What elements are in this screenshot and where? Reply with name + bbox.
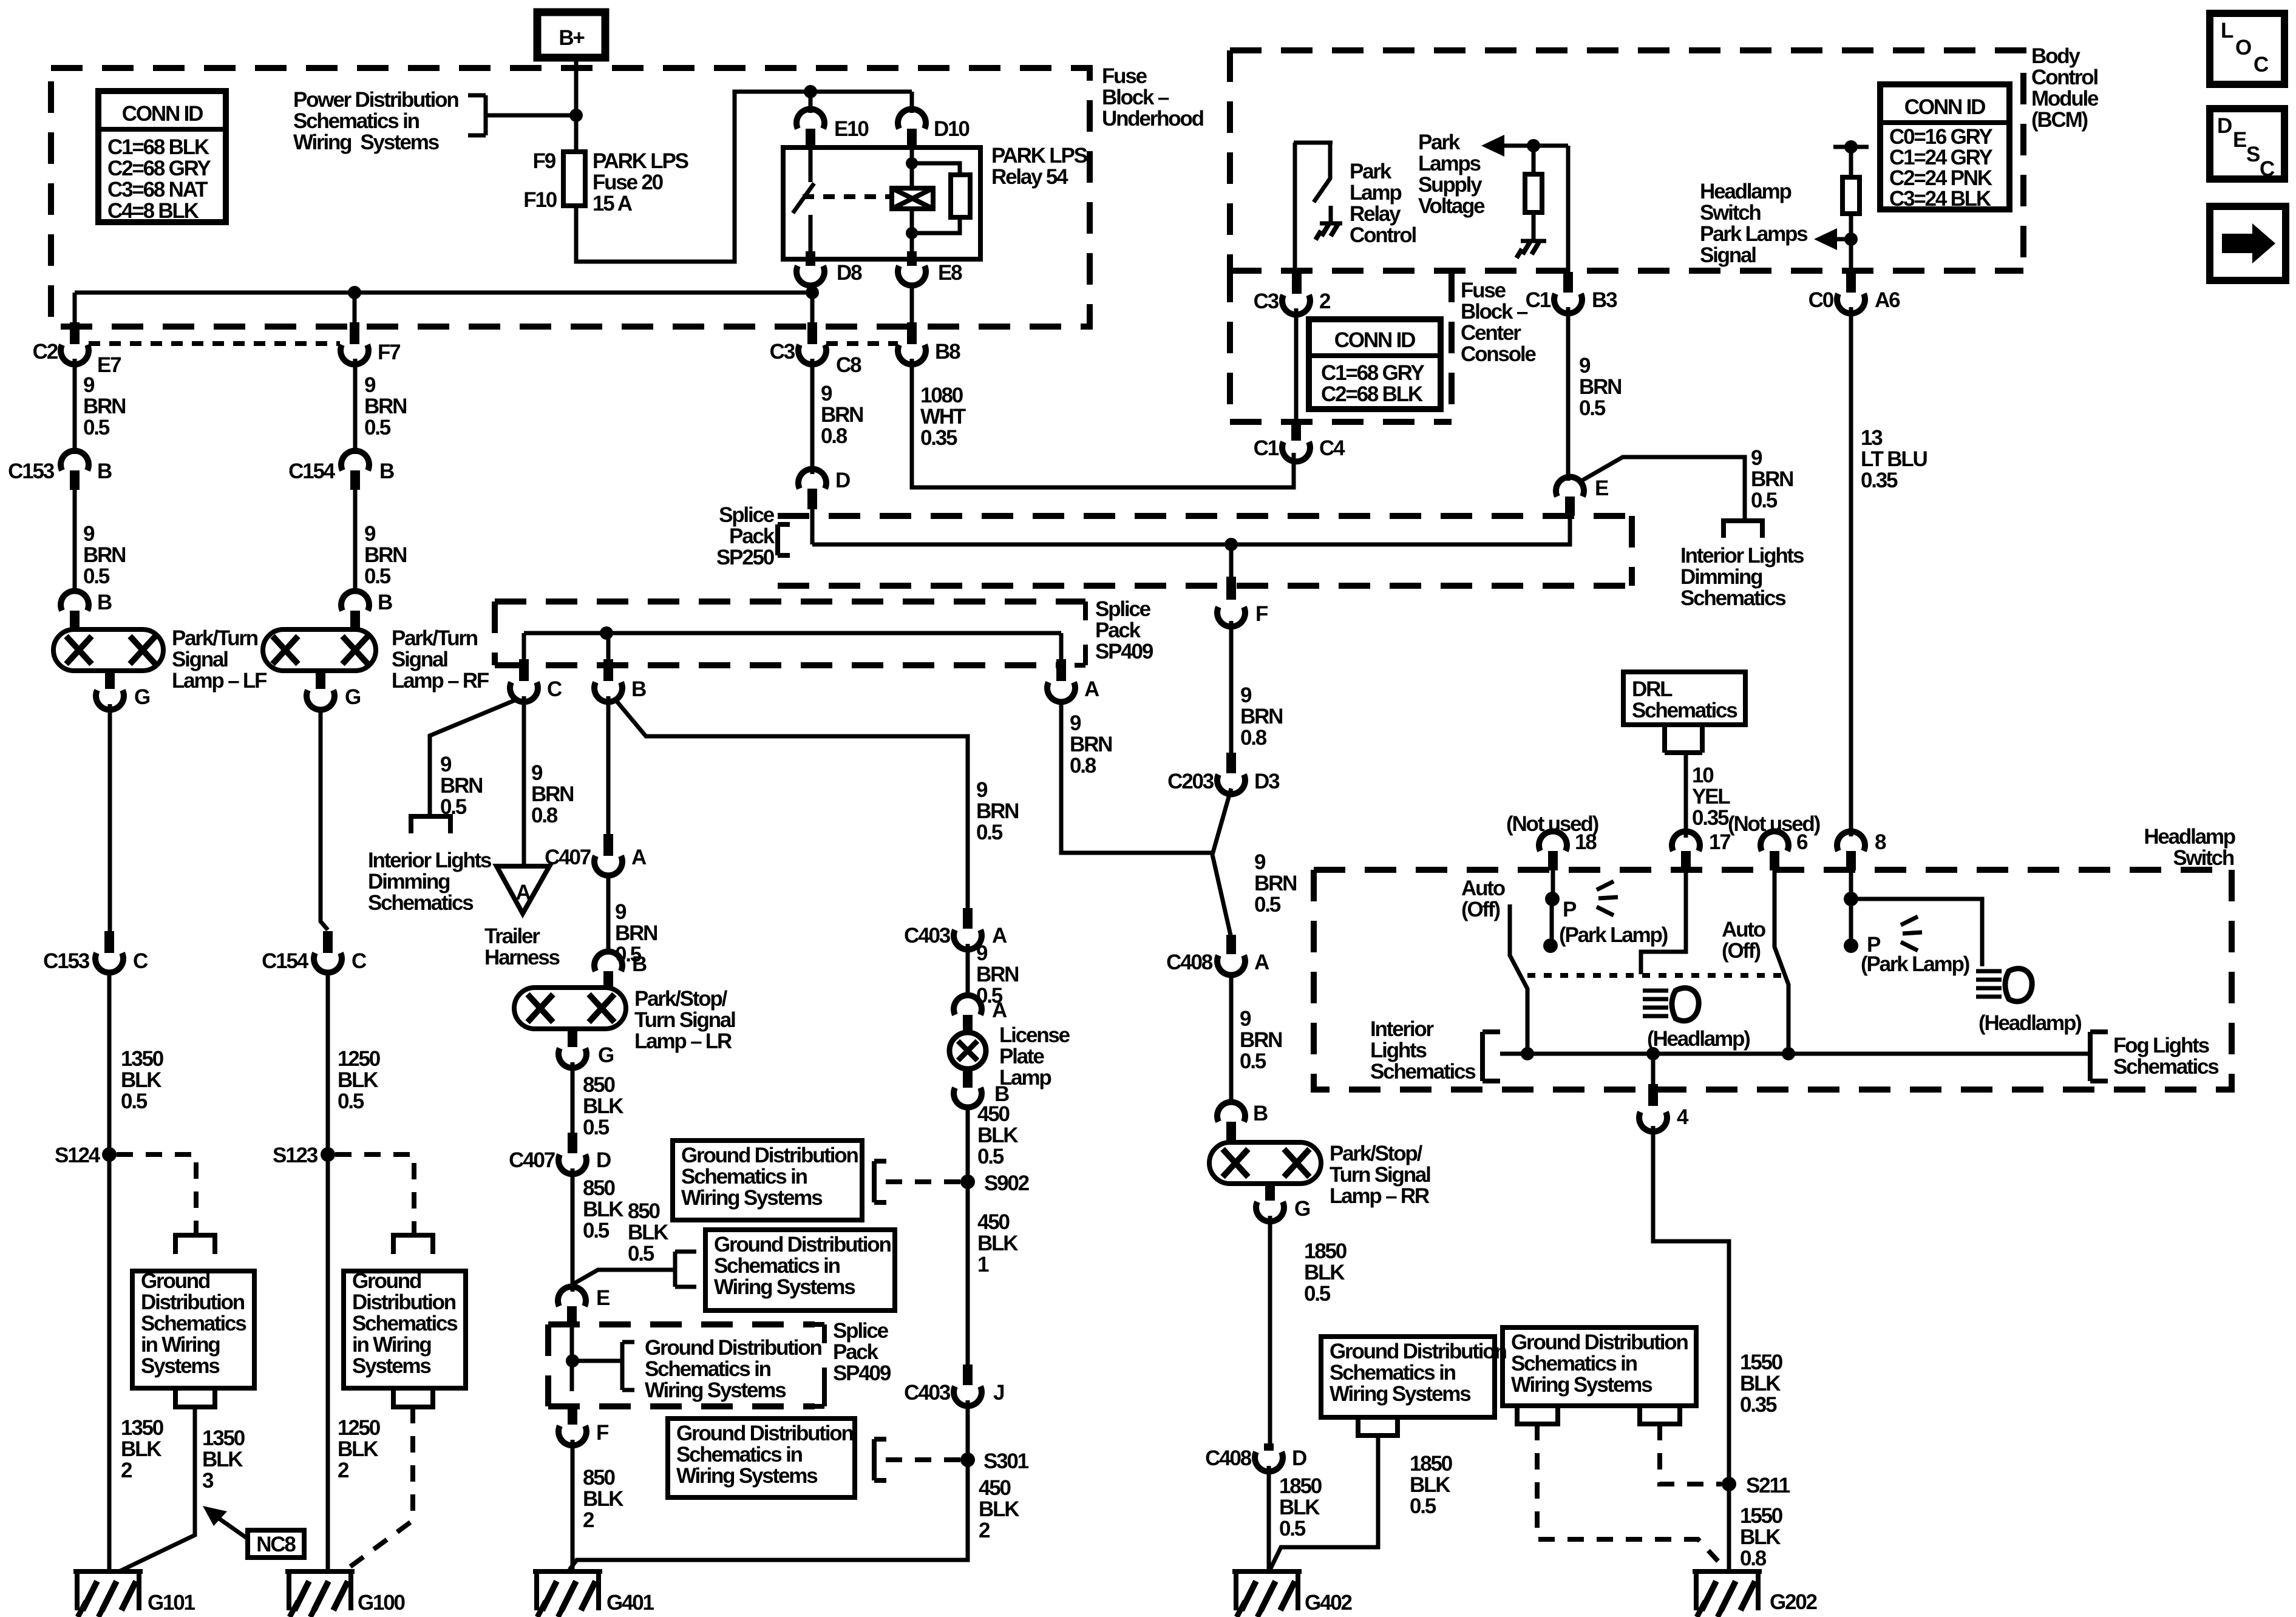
svg-text:Switch: Switch: [1700, 201, 1761, 225]
svg-text:BLK: BLK: [338, 1437, 378, 1461]
svg-text:0.5: 0.5: [1410, 1494, 1436, 1518]
svg-text:E7: E7: [97, 353, 121, 377]
svg-text:CONN ID: CONN ID: [1904, 95, 1985, 119]
svg-text:(Off): (Off): [1722, 939, 1760, 963]
svg-text:C2=68 BLK: C2=68 BLK: [1321, 382, 1423, 406]
svg-text:18: 18: [1575, 830, 1597, 854]
svg-text:1250: 1250: [338, 1416, 381, 1440]
svg-text:D: D: [2217, 114, 2232, 138]
svg-text:C407: C407: [545, 846, 591, 869]
svg-text:(Park Lamp): (Park Lamp): [1559, 923, 1668, 947]
svg-text:17: 17: [1709, 830, 1730, 854]
svg-text:BRN: BRN: [1240, 705, 1282, 728]
svg-text:9: 9: [440, 753, 452, 776]
svg-text:1: 1: [977, 1253, 989, 1276]
svg-text:9: 9: [976, 941, 988, 965]
svg-text:Ground Distribution: Ground Distribution: [681, 1144, 858, 1167]
svg-text:9: 9: [531, 761, 543, 785]
svg-text:9: 9: [364, 522, 376, 546]
svg-text:A: A: [631, 846, 647, 869]
svg-text:C1: C1: [1526, 288, 1551, 312]
svg-text:9: 9: [83, 522, 95, 546]
svg-text:PARK LPS: PARK LPS: [991, 144, 1087, 168]
svg-text:0.5: 0.5: [1751, 489, 1778, 512]
svg-text:BLK: BLK: [202, 1448, 243, 1471]
svg-text:(Headlamp): (Headlamp): [1978, 1011, 2081, 1035]
svg-text:B: B: [632, 952, 647, 976]
svg-text:B: B: [1253, 1102, 1268, 1125]
svg-text:C403: C403: [904, 924, 951, 947]
svg-text:E: E: [1595, 476, 1608, 500]
svg-text:1080: 1080: [920, 384, 963, 407]
svg-text:C1: C1: [1254, 436, 1279, 460]
svg-text:Auto: Auto: [1722, 918, 1766, 941]
svg-text:BLK: BLK: [977, 1124, 1018, 1147]
svg-text:Schematics in: Schematics in: [645, 1357, 771, 1381]
svg-text:2: 2: [338, 1459, 349, 1482]
svg-text:C3: C3: [770, 340, 795, 364]
svg-text:450: 450: [979, 1476, 1011, 1500]
svg-text:Splice: Splice: [833, 1319, 889, 1343]
svg-text:S124: S124: [55, 1144, 101, 1167]
svg-text:G202: G202: [1770, 1590, 1818, 1614]
svg-text:Splice: Splice: [1095, 597, 1151, 621]
svg-text:Schematics: Schematics: [141, 1312, 246, 1335]
svg-text:SP409: SP409: [833, 1361, 891, 1385]
svg-text:Signal: Signal: [172, 648, 228, 671]
svg-text:BRN: BRN: [531, 782, 573, 806]
svg-text:Supply: Supply: [1418, 173, 1483, 197]
svg-text:Body: Body: [2031, 44, 2080, 68]
svg-text:450: 450: [977, 1210, 1010, 1234]
svg-text:DRL: DRL: [1632, 677, 1673, 701]
svg-text:Schematics: Schematics: [352, 1312, 458, 1335]
svg-text:C203: C203: [1167, 770, 1214, 793]
svg-text:BLK: BLK: [977, 1232, 1018, 1255]
svg-text:C: C: [547, 677, 562, 701]
svg-text:A: A: [515, 881, 531, 904]
svg-text:Wiring Systems: Wiring Systems: [1511, 1373, 1652, 1397]
svg-text:Lamp – RF: Lamp – RF: [392, 669, 489, 693]
svg-text:Ground Distribution: Ground Distribution: [714, 1233, 891, 1256]
svg-text:Schematics in: Schematics in: [681, 1165, 807, 1188]
svg-text:Headlamp: Headlamp: [1700, 180, 1791, 203]
svg-text:Wiring Systems: Wiring Systems: [293, 131, 440, 154]
svg-text:1850: 1850: [1304, 1239, 1347, 1263]
svg-text:0.5: 0.5: [364, 416, 391, 439]
svg-text:C4=8 BLK: C4=8 BLK: [107, 199, 199, 223]
svg-text:Pack: Pack: [833, 1340, 879, 1364]
svg-text:BRN: BRN: [440, 774, 482, 798]
svg-text:BLK: BLK: [338, 1068, 378, 1092]
svg-text:1250: 1250: [338, 1047, 381, 1071]
svg-text:0.35: 0.35: [920, 426, 957, 450]
svg-text:C: C: [2260, 157, 2275, 181]
svg-text:G101: G101: [148, 1591, 195, 1615]
svg-text:Park/Stop/: Park/Stop/: [634, 987, 728, 1011]
svg-text:F9: F9: [533, 149, 556, 173]
svg-text:C154: C154: [288, 459, 336, 483]
svg-text:Ground Distribution: Ground Distribution: [1511, 1331, 1688, 1354]
svg-text:BRN: BRN: [364, 543, 406, 567]
svg-text:Park: Park: [1418, 131, 1461, 154]
svg-text:Schematics in: Schematics in: [1330, 1361, 1456, 1385]
svg-text:Interior Lights: Interior Lights: [368, 849, 492, 872]
svg-text:Control: Control: [2031, 66, 2097, 89]
svg-text:A: A: [1084, 677, 1099, 701]
svg-text:0.5: 0.5: [83, 564, 110, 588]
svg-text:BRN: BRN: [1579, 375, 1621, 399]
svg-text:BRN: BRN: [1751, 467, 1793, 491]
svg-text:C408: C408: [1166, 951, 1213, 974]
svg-text:B: B: [97, 459, 112, 483]
svg-text:Ground Distribution: Ground Distribution: [1330, 1340, 1506, 1363]
svg-text:Module: Module: [2031, 87, 2099, 110]
svg-text:0.5: 0.5: [1240, 1049, 1266, 1073]
svg-text:Ground: Ground: [352, 1269, 421, 1293]
svg-text:in Wiring: in Wiring: [352, 1333, 431, 1357]
svg-text:0.5: 0.5: [1304, 1282, 1331, 1306]
svg-text:13: 13: [1861, 426, 1883, 450]
svg-text:450: 450: [977, 1102, 1010, 1126]
svg-text:Fog Lights: Fog Lights: [2113, 1034, 2210, 1057]
svg-text:0.5: 0.5: [1579, 396, 1606, 420]
svg-text:Lamp – LF: Lamp – LF: [172, 669, 267, 693]
svg-text:BRN: BRN: [976, 799, 1018, 823]
svg-text:(BCM): (BCM): [2031, 108, 2088, 132]
svg-text:1350: 1350: [121, 1416, 164, 1440]
svg-text:C: C: [133, 949, 148, 973]
svg-text:C2: C2: [33, 340, 58, 364]
svg-text:Dimming: Dimming: [368, 870, 450, 893]
svg-text:9: 9: [83, 373, 95, 397]
svg-text:1850: 1850: [1279, 1474, 1322, 1498]
svg-text:E8: E8: [938, 261, 962, 285]
svg-text:Schematics: Schematics: [1632, 699, 1737, 722]
svg-text:B: B: [97, 591, 112, 614]
svg-text:S: S: [2246, 143, 2260, 166]
svg-text:B8: B8: [935, 340, 960, 364]
svg-text:C8: C8: [836, 353, 861, 377]
svg-text:9: 9: [1240, 1007, 1251, 1031]
svg-text:Trailer: Trailer: [484, 924, 540, 948]
svg-text:B+: B+: [559, 26, 585, 50]
svg-text:0.5: 0.5: [976, 821, 1003, 844]
svg-text:NC8: NC8: [256, 1533, 296, 1556]
svg-text:Relay 54: Relay 54: [991, 165, 1068, 189]
svg-text:9: 9: [1254, 850, 1266, 874]
svg-text:S301: S301: [983, 1449, 1029, 1473]
svg-text:9: 9: [364, 373, 376, 397]
svg-text:Dimming: Dimming: [1680, 565, 1762, 589]
svg-text:0.5: 0.5: [121, 1090, 148, 1113]
svg-text:Splice: Splice: [719, 503, 775, 527]
svg-text:2: 2: [979, 1519, 990, 1542]
svg-text:G401: G401: [606, 1591, 654, 1615]
svg-text:1350: 1350: [121, 1047, 164, 1071]
svg-text:C1=68 GRY: C1=68 GRY: [1321, 361, 1424, 385]
svg-text:Center: Center: [1461, 321, 1521, 345]
svg-text:9: 9: [1751, 446, 1762, 470]
svg-text:9: 9: [1579, 354, 1591, 378]
svg-text:CONN ID: CONN ID: [1334, 328, 1415, 352]
svg-text:Wiring Systems: Wiring Systems: [676, 1464, 818, 1488]
svg-text:C4: C4: [1319, 436, 1345, 460]
svg-text:G100: G100: [358, 1591, 406, 1615]
svg-text:C: C: [2254, 53, 2269, 76]
svg-text:D: D: [835, 469, 850, 492]
svg-text:Wiring Systems: Wiring Systems: [681, 1186, 823, 1210]
svg-text:850: 850: [583, 1466, 616, 1490]
svg-text:Console: Console: [1461, 342, 1536, 366]
svg-text:Fuse 20: Fuse 20: [593, 171, 664, 194]
svg-text:A: A: [992, 924, 1007, 947]
svg-text:BRN: BRN: [1254, 872, 1296, 895]
svg-text:S902: S902: [984, 1171, 1030, 1195]
svg-text:6: 6: [1796, 830, 1808, 854]
svg-text:3: 3: [202, 1469, 214, 1493]
svg-text:J: J: [993, 1381, 1004, 1405]
svg-text:Lamp: Lamp: [1350, 181, 1401, 205]
svg-text:C407: C407: [509, 1148, 555, 1172]
svg-text:BRN: BRN: [83, 543, 125, 567]
svg-text:E10: E10: [834, 117, 869, 141]
svg-text:9: 9: [821, 382, 832, 405]
svg-text:BLK: BLK: [583, 1094, 623, 1118]
svg-text:0.8: 0.8: [1070, 754, 1096, 778]
svg-text:F: F: [1255, 602, 1268, 626]
svg-text:BLK: BLK: [628, 1221, 668, 1244]
svg-text:Voltage: Voltage: [1418, 194, 1485, 218]
svg-text:0.5: 0.5: [1279, 1517, 1306, 1541]
svg-text:YEL: YEL: [1692, 785, 1730, 808]
svg-text:0.35: 0.35: [1861, 469, 1898, 492]
svg-text:(Park Lamp): (Park Lamp): [1861, 952, 1969, 976]
svg-text:D3: D3: [1254, 770, 1280, 793]
svg-text:Wiring Systems: Wiring Systems: [1330, 1382, 1471, 1406]
svg-text:Signal: Signal: [1700, 243, 1756, 267]
svg-text:Block –: Block –: [1461, 300, 1528, 324]
svg-text:Turn Signal: Turn Signal: [1330, 1163, 1430, 1187]
svg-text:BLK: BLK: [1304, 1261, 1345, 1284]
svg-text:1550: 1550: [1740, 1504, 1783, 1528]
svg-text:Schematics in: Schematics in: [1511, 1352, 1637, 1375]
svg-text:Headlamp: Headlamp: [2144, 825, 2235, 849]
svg-text:C3=24 BLK: C3=24 BLK: [1889, 187, 1991, 211]
svg-text:Lamp – RR: Lamp – RR: [1330, 1184, 1430, 1208]
svg-text:9: 9: [1070, 711, 1081, 735]
svg-text:Schematics: Schematics: [2113, 1055, 2219, 1079]
svg-text:F10: F10: [523, 188, 557, 212]
svg-text:D10: D10: [934, 117, 970, 141]
svg-text:Plate: Plate: [999, 1045, 1044, 1068]
svg-text:A6: A6: [1875, 288, 1900, 312]
svg-text:1550: 1550: [1740, 1351, 1783, 1374]
svg-text:2: 2: [1319, 290, 1331, 313]
svg-text:A: A: [1254, 951, 1269, 974]
svg-text:B3: B3: [1592, 288, 1617, 312]
svg-text:0.5: 0.5: [83, 416, 110, 439]
svg-text:BRN: BRN: [821, 403, 863, 427]
svg-text:Underhood: Underhood: [1102, 107, 1204, 131]
svg-text:Power Distribution: Power Distribution: [293, 88, 458, 112]
svg-text:D8: D8: [837, 261, 862, 285]
svg-text:Park/Turn: Park/Turn: [172, 626, 258, 650]
svg-text:C403: C403: [904, 1381, 951, 1405]
svg-text:Lamps: Lamps: [1418, 152, 1481, 175]
svg-text:Distribution: Distribution: [141, 1290, 245, 1314]
svg-text:Lights: Lights: [1370, 1039, 1427, 1062]
svg-text:Schematics: Schematics: [1370, 1060, 1476, 1083]
svg-text:0.5: 0.5: [977, 1145, 1004, 1168]
svg-text:0.5: 0.5: [583, 1116, 610, 1139]
svg-text:0.5: 0.5: [628, 1242, 654, 1266]
svg-text:BRN: BRN: [83, 395, 125, 418]
svg-text:B: B: [378, 591, 392, 614]
svg-text:C2=68 GRY: C2=68 GRY: [107, 157, 211, 180]
svg-text:in Wiring: in Wiring: [141, 1333, 220, 1357]
svg-text:F7: F7: [378, 341, 400, 364]
svg-text:C153: C153: [43, 949, 90, 973]
svg-text:Schematics: Schematics: [1680, 586, 1786, 610]
svg-text:D: D: [1292, 1446, 1306, 1470]
svg-text:Wiring Systems: Wiring Systems: [645, 1378, 786, 1402]
svg-text:E: E: [2233, 128, 2246, 152]
svg-text:0.5: 0.5: [364, 564, 391, 588]
svg-text:BRN: BRN: [976, 963, 1018, 986]
svg-text:A: A: [992, 998, 1007, 1022]
svg-text:Ground: Ground: [141, 1269, 210, 1293]
svg-text:10: 10: [1692, 764, 1714, 787]
svg-text:G: G: [1294, 1197, 1310, 1221]
svg-text:C1=68 BLK: C1=68 BLK: [107, 135, 209, 159]
svg-text:BLK: BLK: [121, 1068, 161, 1092]
svg-text:0.8: 0.8: [1740, 1547, 1767, 1570]
svg-text:BLK: BLK: [583, 1487, 623, 1511]
svg-text:Block –: Block –: [1102, 86, 1169, 109]
svg-text:Park Lamps: Park Lamps: [1700, 222, 1808, 246]
svg-text:0.8: 0.8: [1240, 726, 1267, 750]
svg-text:G: G: [134, 685, 150, 709]
svg-text:850: 850: [583, 1073, 616, 1097]
svg-text:SP250: SP250: [716, 546, 775, 569]
svg-text:9: 9: [615, 900, 627, 924]
svg-text:Schematics in: Schematics in: [714, 1254, 840, 1278]
svg-text:Distribution: Distribution: [352, 1290, 456, 1314]
svg-text:0.5: 0.5: [583, 1219, 610, 1242]
svg-text:Relay: Relay: [1350, 202, 1401, 226]
svg-text:L: L: [2221, 19, 2233, 42]
svg-text:SP409: SP409: [1095, 640, 1153, 663]
svg-text:G: G: [345, 685, 361, 709]
svg-text:(Off): (Off): [1461, 898, 1500, 921]
svg-text:BRN: BRN: [364, 395, 406, 418]
svg-text:(Headlamp): (Headlamp): [1647, 1027, 1750, 1051]
svg-text:Harness: Harness: [484, 946, 560, 969]
svg-text:Park: Park: [1350, 160, 1392, 183]
svg-text:1850: 1850: [1410, 1452, 1453, 1476]
svg-text:Wiring Systems: Wiring Systems: [714, 1275, 855, 1299]
svg-text:2: 2: [583, 1508, 594, 1532]
svg-text:S211: S211: [1746, 1474, 1790, 1497]
svg-text:9: 9: [976, 778, 988, 802]
svg-text:Switch: Switch: [2173, 846, 2233, 870]
svg-text:PARK LPS: PARK LPS: [593, 149, 688, 173]
svg-text:D: D: [596, 1148, 611, 1172]
svg-text:Schematics: Schematics: [368, 891, 474, 915]
svg-text:G: G: [598, 1043, 614, 1067]
svg-text:0.35: 0.35: [1692, 806, 1729, 830]
svg-text:Lamp – LR: Lamp – LR: [634, 1029, 732, 1053]
svg-text:BRN: BRN: [1240, 1028, 1282, 1052]
svg-text:BRN: BRN: [615, 921, 657, 945]
svg-text:0.5: 0.5: [338, 1090, 364, 1113]
svg-text:Systems: Systems: [352, 1354, 431, 1378]
svg-text:0.5: 0.5: [440, 795, 467, 819]
svg-text:Fuse: Fuse: [1102, 64, 1147, 88]
svg-text:Control: Control: [1350, 223, 1416, 247]
svg-text:Schematics in: Schematics in: [676, 1443, 803, 1466]
svg-text:C0: C0: [1809, 288, 1834, 312]
svg-text:C3=68 NAT: C3=68 NAT: [107, 178, 208, 202]
svg-text:0.8: 0.8: [821, 424, 847, 448]
svg-text:2: 2: [121, 1459, 132, 1482]
svg-text:WHT: WHT: [920, 405, 966, 429]
svg-text:BLK: BLK: [979, 1497, 1019, 1521]
svg-text:0.5: 0.5: [1254, 893, 1281, 917]
svg-text:License: License: [999, 1023, 1070, 1047]
svg-text:9: 9: [1240, 683, 1252, 707]
svg-text:Pack: Pack: [729, 524, 775, 548]
svg-text:Interior: Interior: [1370, 1017, 1435, 1041]
svg-text:Park/Stop/: Park/Stop/: [1330, 1142, 1423, 1165]
svg-text:Turn Signal: Turn Signal: [634, 1008, 735, 1032]
svg-text:BLK: BLK: [1740, 1372, 1781, 1395]
svg-text:0.8: 0.8: [531, 804, 558, 827]
svg-text:S123: S123: [273, 1144, 318, 1167]
svg-text:Signal: Signal: [392, 648, 447, 671]
svg-text:850: 850: [583, 1176, 616, 1200]
svg-text:E: E: [596, 1286, 610, 1310]
svg-text:O: O: [2235, 36, 2251, 59]
svg-text:C408: C408: [1205, 1446, 1252, 1470]
svg-text:1350: 1350: [202, 1426, 245, 1450]
svg-text:B: B: [631, 677, 646, 701]
svg-text:850: 850: [628, 1199, 661, 1223]
svg-text:8: 8: [1875, 830, 1886, 854]
svg-text:Interior Lights: Interior Lights: [1680, 544, 1804, 568]
svg-text:BLK: BLK: [1279, 1496, 1320, 1519]
svg-text:C3: C3: [1254, 290, 1279, 313]
svg-text:Ground Distribution: Ground Distribution: [645, 1336, 821, 1360]
svg-text:Systems: Systems: [141, 1354, 220, 1378]
svg-text:Auto: Auto: [1461, 876, 1506, 900]
svg-text:LT BLU: LT BLU: [1861, 447, 1927, 471]
svg-text:B: B: [379, 459, 394, 483]
svg-text:C153: C153: [8, 459, 55, 483]
svg-text:BLK: BLK: [583, 1198, 623, 1221]
svg-text:C: C: [352, 949, 367, 973]
svg-text:0.35: 0.35: [1740, 1393, 1777, 1417]
svg-text:BRN: BRN: [1070, 733, 1112, 756]
svg-text:Schematics in: Schematics in: [293, 109, 419, 133]
svg-text:4: 4: [1677, 1105, 1689, 1129]
svg-text:Fuse: Fuse: [1461, 279, 1506, 302]
svg-text:15 A: 15 A: [593, 192, 633, 215]
svg-text:CONN ID: CONN ID: [122, 102, 203, 126]
svg-text:BLK: BLK: [1740, 1525, 1781, 1549]
svg-text:Pack: Pack: [1095, 619, 1141, 642]
